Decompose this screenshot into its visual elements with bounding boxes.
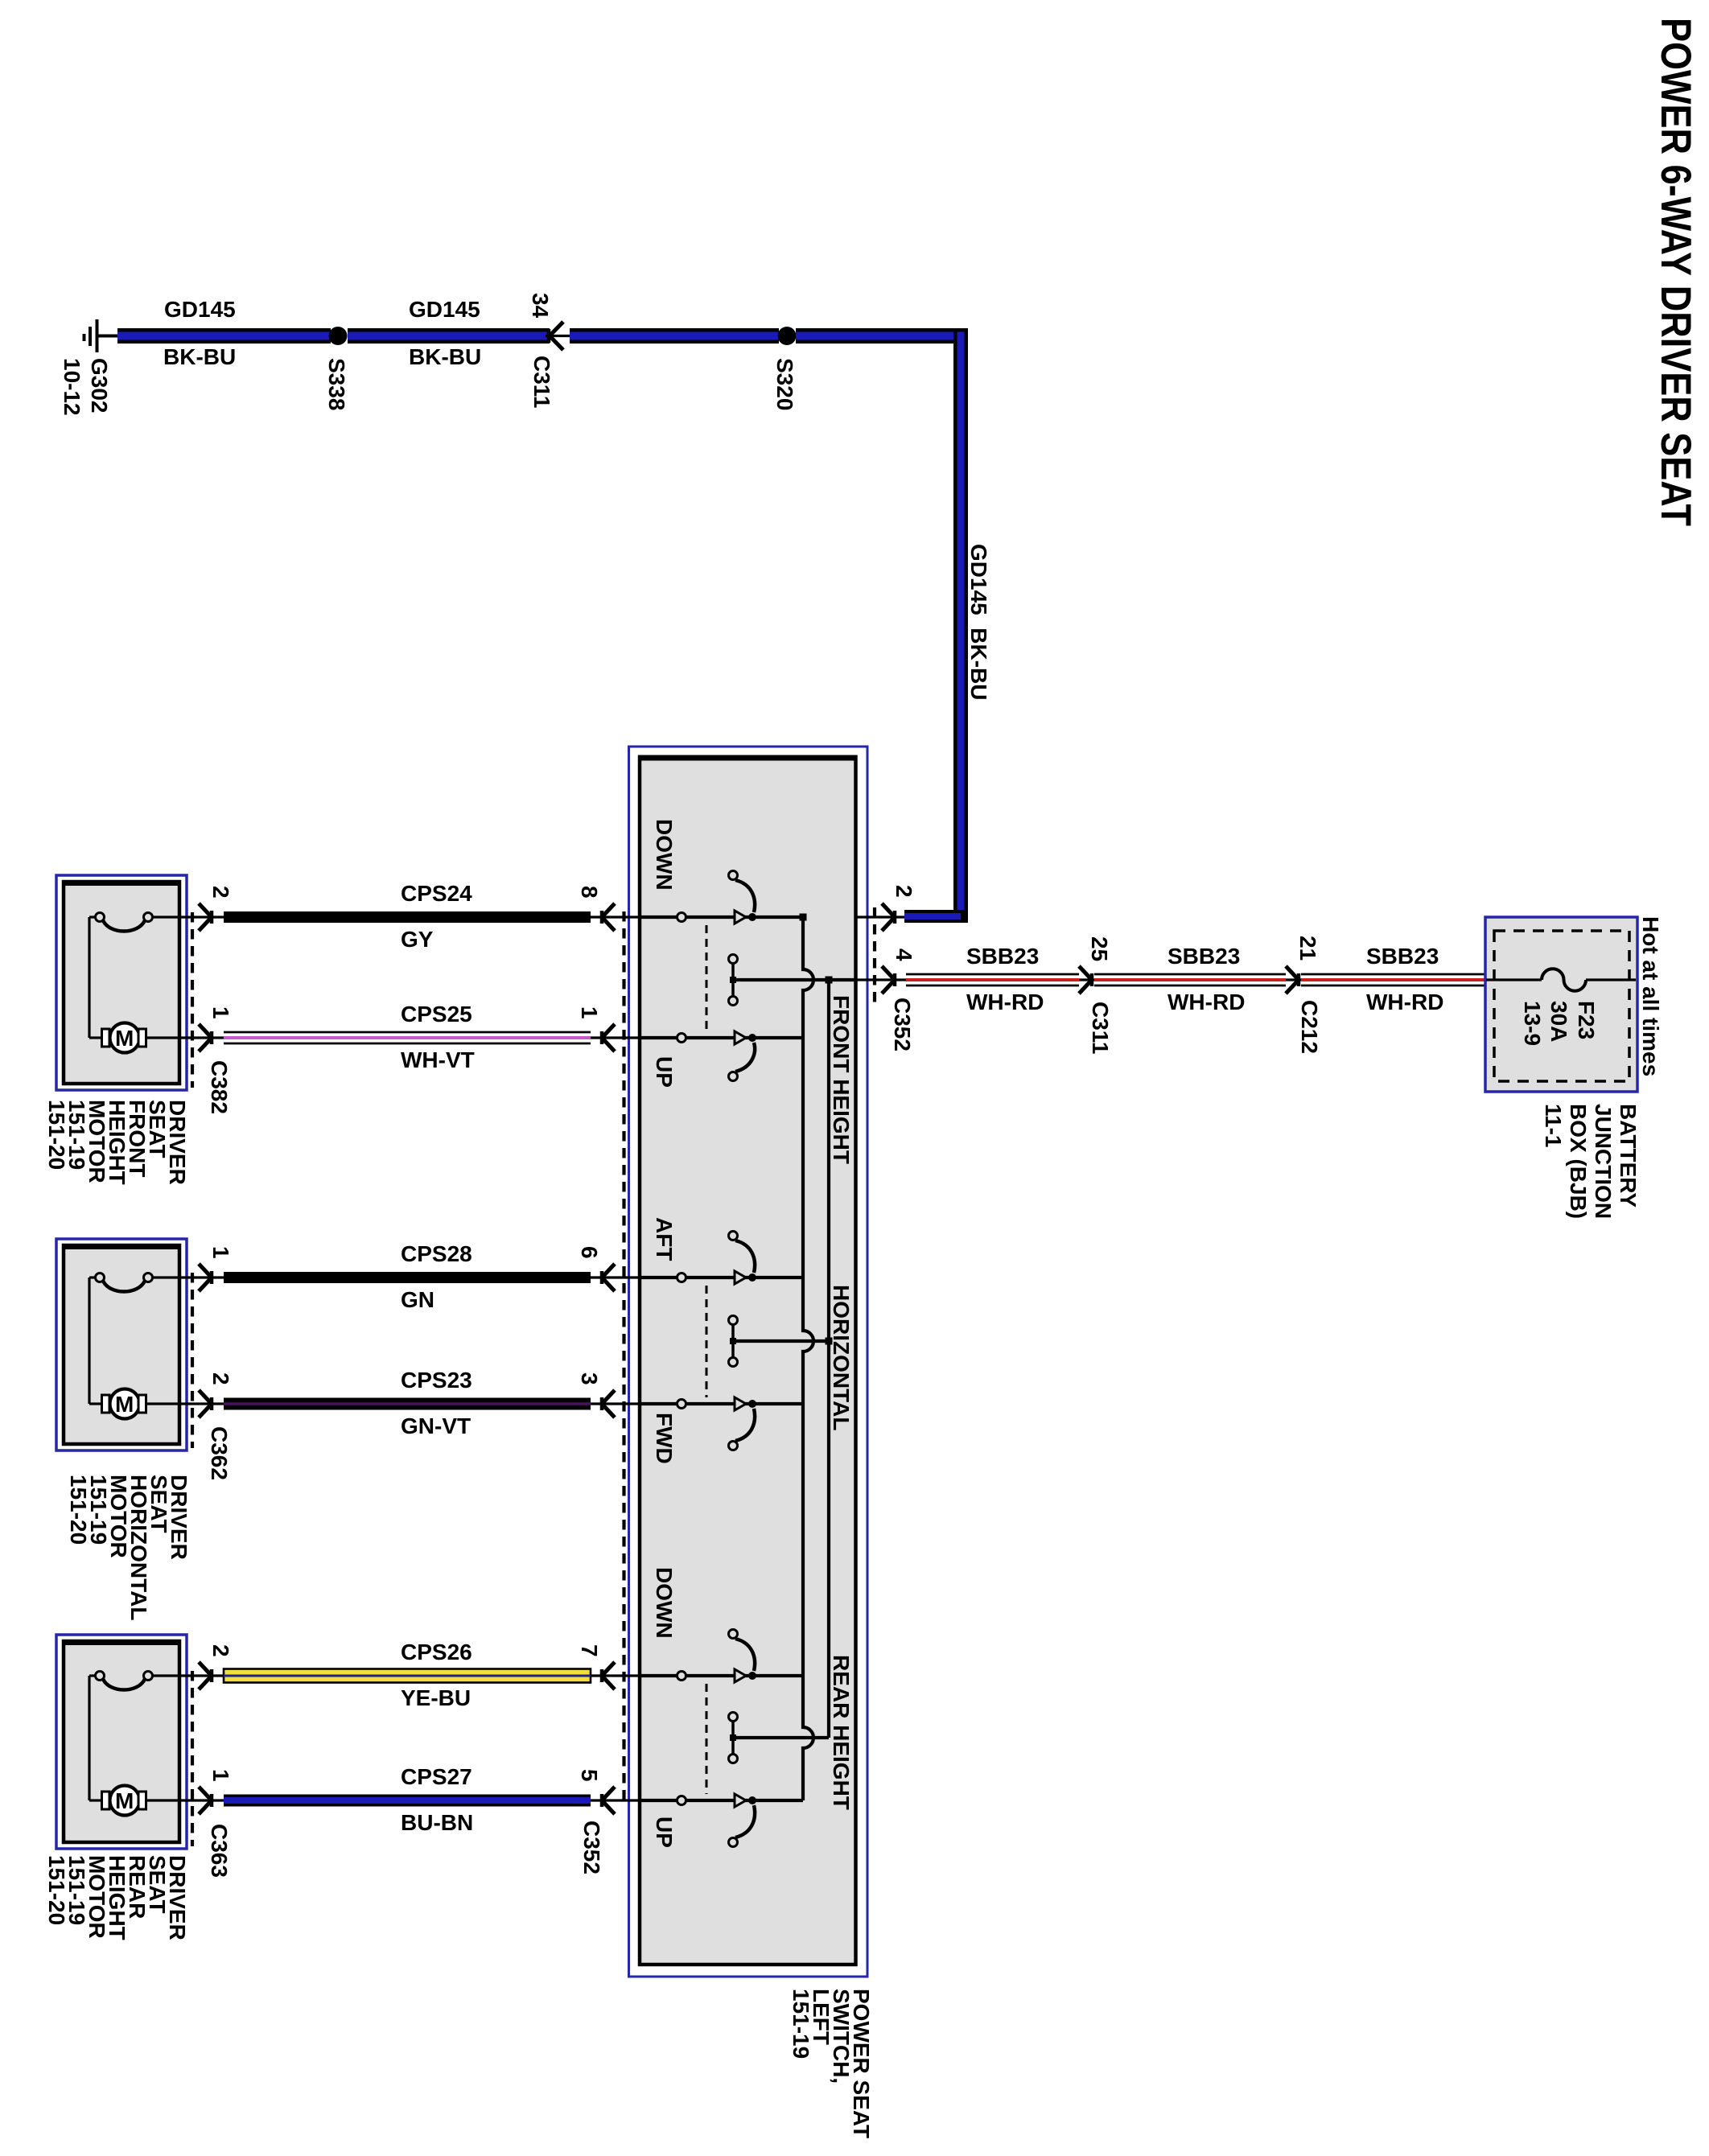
connector C363 dashed line xyxy=(191,1671,194,1846)
svg-text:GN: GN xyxy=(401,1287,434,1312)
svg-text:GD145 BK-BU: GD145 BK-BU xyxy=(966,544,991,700)
svg-text:25: 25 xyxy=(1087,936,1112,961)
horizontal common feed contact xyxy=(729,1316,830,1367)
svg-text:6: 6 xyxy=(577,1246,602,1259)
svg-text:G302: G302 xyxy=(87,358,112,414)
connector C311 pin 25 (inline arrow) xyxy=(1079,936,1113,1054)
svg-text:5: 5 xyxy=(577,1769,602,1782)
svg-text:HORIZONTAL: HORIZONTAL xyxy=(829,1285,854,1430)
label HORIZONTAL xyxy=(829,1285,854,1430)
wire CPS23 GN-VT (motor pin 2 to switch pin 3) xyxy=(224,1398,591,1410)
label Hot at all times xyxy=(1638,916,1663,1076)
label DRIVER SEAT FRONT HEIGHT MOTOR 151-19 151-20 xyxy=(44,1100,190,1185)
svg-text:1: 1 xyxy=(208,1769,233,1782)
wire CPS28 GN (motor pin 1 to switch pin 6) xyxy=(224,1272,591,1283)
svg-text:CPS25: CPS25 xyxy=(401,1002,472,1027)
splice S338 xyxy=(324,327,349,410)
svg-text:21: 21 xyxy=(1295,936,1320,961)
svg-text:C363: C363 xyxy=(207,1824,232,1878)
driver seat front height motor box xyxy=(56,875,187,1090)
svg-text:REAR HEIGHT: REAR HEIGHT xyxy=(829,1655,854,1810)
wire GD145 BK-BU segment 2 (S338 to C311) xyxy=(348,328,550,344)
switch pin 3 xyxy=(577,1372,640,1417)
wire GD145 BK-BU segment 1 (ground to S338) xyxy=(117,328,331,344)
switch pin 6 xyxy=(577,1246,640,1291)
horizontal motor M symbol xyxy=(102,1389,146,1419)
svg-text:BOX (BJB): BOX (BJB) xyxy=(1566,1104,1591,1219)
svg-text:C382: C382 xyxy=(207,1060,232,1114)
svg-text:GY: GY xyxy=(401,927,434,952)
label AFT xyxy=(652,1217,677,1261)
front height DOWN contact row (pin 8) xyxy=(640,871,803,924)
label FWD xyxy=(652,1413,677,1464)
label CPS24 GY xyxy=(401,881,472,952)
svg-text:CPS26: CPS26 xyxy=(401,1640,472,1664)
svg-text:F23: F23 xyxy=(1574,1001,1599,1039)
label SBB23 WH-RD (segment 3) xyxy=(1366,944,1443,1014)
label CPS23 GN-VT xyxy=(401,1368,472,1438)
svg-text:C311: C311 xyxy=(529,356,554,408)
label BATTERY JUNCTION BOX (BJB) 11-1 xyxy=(1541,1104,1641,1219)
label C362 xyxy=(207,1426,232,1480)
svg-text:FWD: FWD xyxy=(652,1413,677,1464)
title POWER 6-WAY DRIVER SEAT xyxy=(1652,18,1699,526)
svg-text:SBB23: SBB23 xyxy=(1167,944,1240,969)
front height motor M symbol xyxy=(102,1023,146,1053)
svg-text:M: M xyxy=(115,1026,134,1051)
svg-text:BU-BN: BU-BN xyxy=(401,1810,473,1835)
connector C382 dashed line xyxy=(191,912,194,1088)
svg-text:BK-BU: BK-BU xyxy=(409,344,481,369)
front height motor pin 1 xyxy=(146,1006,233,1051)
svg-text:151-20: 151-20 xyxy=(44,1855,69,1925)
label GD145 BK-BU (vertical drop) xyxy=(966,544,991,700)
svg-text:30A: 30A xyxy=(1546,1001,1571,1042)
front height UP contact row (pin 1) xyxy=(640,1031,803,1081)
svg-text:WH-RD: WH-RD xyxy=(966,990,1044,1014)
switch pin 4 xyxy=(855,948,916,994)
connector C352 dashed line (right side, pins 2 and 4) xyxy=(873,907,876,1002)
svg-text:AFT: AFT xyxy=(652,1217,677,1261)
svg-text:SBB23: SBB23 xyxy=(966,944,1039,969)
horizontal motor breaker arc xyxy=(89,1273,153,1405)
label C352 (bottom left, below pin 5) xyxy=(579,1821,604,1874)
svg-text:C311: C311 xyxy=(1088,1002,1113,1054)
svg-text:GN-VT: GN-VT xyxy=(401,1413,471,1438)
wire CPS24 GY (motor pin 2 to switch pin 8) xyxy=(224,911,591,923)
connector C311 pin 34 (inline arrow) xyxy=(528,293,571,408)
splice S320 xyxy=(772,327,797,410)
fuse F23 30A 13-9 xyxy=(1486,969,1636,1046)
switch pin 1 xyxy=(577,1006,640,1051)
svg-text:151-20: 151-20 xyxy=(66,1475,91,1545)
svg-text:CPS28: CPS28 xyxy=(401,1241,472,1266)
rear height motor M symbol xyxy=(102,1786,146,1816)
label C363 xyxy=(207,1824,232,1878)
svg-text:S320: S320 xyxy=(772,358,797,410)
connector C212 pin 21 (inline arrow) xyxy=(1286,936,1322,1054)
rear height DOWN contact row (pin 7) xyxy=(640,1630,803,1683)
switch power bus (pin 4 feed to all three sections) xyxy=(826,977,833,1738)
rear height common feed contact xyxy=(729,1713,830,1763)
svg-text:1: 1 xyxy=(208,1246,233,1259)
label CPS25 WH-VT xyxy=(401,1002,475,1072)
label DOWN (rear height) xyxy=(652,1567,677,1639)
svg-text:3: 3 xyxy=(577,1372,602,1385)
svg-text:1: 1 xyxy=(577,1006,602,1019)
svg-text:4: 4 xyxy=(892,948,916,961)
connector C362 dashed line xyxy=(191,1273,194,1448)
label DRIVER SEAT REAR HEIGHT MOTOR 151-19 151-20 xyxy=(44,1855,190,1940)
wire GD145 BK-BU segment 4 (S320 to corner and drop to switch pin 2) xyxy=(796,328,968,923)
svg-text:BK-BU: BK-BU xyxy=(163,344,236,369)
svg-text:CPS27: CPS27 xyxy=(401,1764,472,1789)
svg-text:UP: UP xyxy=(652,1817,677,1848)
label CPS27 BU-BN xyxy=(401,1764,473,1835)
wire SBB23 WH-RD segment 1 (switch pin 4 to C311) xyxy=(906,974,1079,985)
svg-text:M: M xyxy=(115,1392,134,1417)
horizontal AFT contact row (pin 6) xyxy=(640,1232,803,1285)
label CPS28 GN xyxy=(401,1241,472,1312)
svg-text:FRONT HEIGHT: FRONT HEIGHT xyxy=(829,995,854,1164)
svg-text:2: 2 xyxy=(208,1372,233,1385)
svg-text:1: 1 xyxy=(208,1006,233,1019)
driver seat horizontal motor box xyxy=(56,1239,187,1450)
svg-text:CPS24: CPS24 xyxy=(401,881,472,906)
svg-text:151-20: 151-20 xyxy=(44,1100,69,1170)
switch ground bus (pin 2 row down to pin 5 row, hops over section feeds) xyxy=(800,914,814,1801)
svg-text:8: 8 xyxy=(577,886,602,899)
svg-text:DOWN: DOWN xyxy=(652,1567,677,1639)
wire CPS27 BU-BN (motor pin 1 to switch pin 5) xyxy=(224,1795,591,1807)
horizontal motor pin 1 xyxy=(152,1246,233,1291)
label C382 xyxy=(207,1060,232,1114)
switch pin 5 xyxy=(577,1769,640,1814)
rear height motor breaker arc xyxy=(89,1672,153,1801)
rear height motor pin 2 xyxy=(152,1644,233,1689)
front height common feed contact xyxy=(729,955,856,1006)
connector C352 dashed line (left side of switch) xyxy=(622,911,625,1807)
svg-text:2: 2 xyxy=(208,1644,233,1657)
svg-text:UP: UP xyxy=(652,1056,677,1088)
horizontal FWD contact row (pin 3) xyxy=(640,1397,803,1450)
svg-text:DOWN: DOWN xyxy=(652,819,677,891)
svg-text:JUNCTION: JUNCTION xyxy=(1591,1104,1616,1219)
svg-text:WH-RD: WH-RD xyxy=(1366,990,1443,1014)
label SBB23 WH-RD (segment 2) xyxy=(1167,944,1245,1014)
switch pin 2 xyxy=(855,885,916,931)
svg-text:13-9: 13-9 xyxy=(1520,1001,1545,1046)
label GD145 BK-BU (segment 2) xyxy=(409,297,481,369)
front height motor pin 2 xyxy=(152,886,233,931)
svg-text:S338: S338 xyxy=(324,358,349,410)
label UP (rear height) xyxy=(652,1817,677,1848)
label C352 (right side, below pin 4) xyxy=(890,998,915,1051)
horizontal mechanical link (dashed) xyxy=(706,1286,708,1397)
svg-text:SBB23: SBB23 xyxy=(1366,944,1439,969)
svg-text:GD145: GD145 xyxy=(409,297,480,322)
svg-text:2: 2 xyxy=(892,885,916,898)
svg-text:C352: C352 xyxy=(579,1821,604,1874)
front height mechanical link (dashed) xyxy=(706,925,708,1031)
label GD145 BK-BU (segment 1) xyxy=(163,297,236,369)
label UP (front height) xyxy=(652,1056,677,1088)
wire SBB23 WH-RD segment 3 (C212 to battery junction box) xyxy=(1301,974,1486,985)
svg-text:CPS23: CPS23 xyxy=(401,1368,472,1393)
svg-text:BATTERY: BATTERY xyxy=(1616,1104,1641,1208)
svg-text:WH-RD: WH-RD xyxy=(1167,990,1245,1014)
svg-text:YE-BU: YE-BU xyxy=(401,1685,471,1710)
svg-text:GD145: GD145 xyxy=(164,297,236,322)
wire CPS26 YE-BU (motor pin 2 to switch pin 7) xyxy=(224,1669,591,1683)
label SBB23 WH-RD (segment 1) xyxy=(966,944,1044,1014)
svg-text:Hot at all times: Hot at all times xyxy=(1638,916,1663,1076)
rear height UP contact row (pin 5) xyxy=(640,1794,803,1847)
driver seat rear height motor box xyxy=(56,1635,187,1849)
svg-text:7: 7 xyxy=(577,1644,602,1657)
wire CPS25 WH-VT (motor pin 1 to switch pin 1) xyxy=(224,1032,591,1043)
svg-text:34: 34 xyxy=(528,293,553,319)
label DRIVER SEAT HORIZONTAL MOTOR 151-19 151-20 xyxy=(66,1475,191,1620)
rear height mechanical link (dashed) xyxy=(706,1684,708,1794)
rear height motor pin 1 xyxy=(146,1769,233,1814)
horizontal motor pin 2 xyxy=(146,1372,233,1417)
switch pin 8 xyxy=(577,886,640,931)
svg-text:WH-VT: WH-VT xyxy=(401,1047,475,1072)
svg-text:151-19: 151-19 xyxy=(789,1989,813,2059)
front height motor breaker arc xyxy=(89,913,153,1039)
label FRONT HEIGHT xyxy=(829,995,854,1164)
label DOWN (front height) xyxy=(652,819,677,891)
svg-text:C212: C212 xyxy=(1297,1000,1322,1054)
label CPS26 YE-BU xyxy=(401,1640,472,1710)
battery junction box xyxy=(1485,917,1637,1092)
svg-text:C352: C352 xyxy=(890,998,915,1051)
svg-text:C362: C362 xyxy=(207,1426,232,1480)
svg-text:2: 2 xyxy=(208,886,233,899)
svg-text:10-12: 10-12 xyxy=(60,358,84,416)
svg-text:M: M xyxy=(115,1788,134,1813)
switch pin 7 xyxy=(577,1644,640,1689)
label REAR HEIGHT xyxy=(829,1655,854,1810)
ground G302 xyxy=(60,319,117,416)
svg-text:POWER 6-WAY DRIVER SEAT: POWER 6-WAY DRIVER SEAT xyxy=(1652,18,1699,526)
wire SBB23 WH-RD segment 2 (C311 to C212) xyxy=(1094,974,1286,985)
svg-text:11-1: 11-1 xyxy=(1541,1104,1566,1148)
power seat switch box xyxy=(629,747,868,1977)
label POWER SEAT SWITCH, LEFT 151-19 xyxy=(789,1989,874,2138)
wire GD145 BK-BU segment 3 (C311 to S320) xyxy=(570,328,779,344)
